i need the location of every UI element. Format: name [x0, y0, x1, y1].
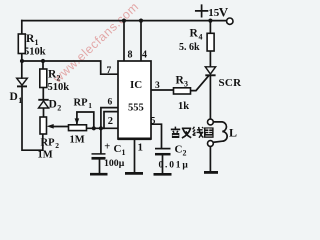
svg-text:1: 1 [35, 38, 39, 47]
svg-text:0.01μ: 0.01μ [159, 160, 190, 170]
svg-text:V: V [219, 5, 229, 20]
svg-text:100μ: 100μ [104, 158, 125, 169]
svg-text:L: L [229, 126, 237, 140]
svg-text:IC: IC [130, 79, 142, 91]
svg-text:R: R [190, 28, 199, 40]
svg-text:3: 3 [184, 79, 188, 88]
svg-text:D: D [10, 91, 18, 103]
svg-text:D: D [49, 99, 57, 111]
svg-text:SCR: SCR [219, 77, 243, 89]
svg-text:8: 8 [128, 50, 133, 61]
svg-text:510k: 510k [48, 82, 70, 93]
svg-text:+: + [104, 142, 110, 153]
svg-text:1k: 1k [178, 101, 189, 112]
svg-text:C: C [175, 144, 183, 156]
svg-text:C: C [114, 143, 122, 155]
svg-text:1M: 1M [70, 135, 85, 146]
svg-text:7: 7 [107, 66, 112, 76]
svg-text:5. 6k: 5. 6k [179, 42, 200, 53]
svg-text:2: 2 [108, 116, 113, 127]
svg-text:2: 2 [183, 148, 187, 157]
svg-text:1: 1 [138, 142, 144, 154]
svg-text:2: 2 [55, 141, 59, 150]
svg-text:1: 1 [122, 148, 126, 157]
svg-text:RP: RP [74, 98, 89, 109]
svg-text:4: 4 [199, 32, 203, 41]
svg-text:1: 1 [18, 96, 22, 105]
svg-text:2: 2 [57, 103, 61, 112]
svg-text:3: 3 [155, 81, 160, 91]
svg-text:6: 6 [108, 98, 113, 108]
svg-text:5: 5 [151, 116, 156, 126]
svg-text:555: 555 [128, 103, 144, 114]
svg-text:1M: 1M [38, 150, 53, 161]
svg-text:RP: RP [41, 138, 56, 149]
svg-text:2: 2 [57, 73, 61, 82]
svg-text:4: 4 [142, 50, 147, 61]
svg-text:1: 1 [88, 101, 92, 110]
svg-text:510k: 510k [24, 47, 46, 58]
